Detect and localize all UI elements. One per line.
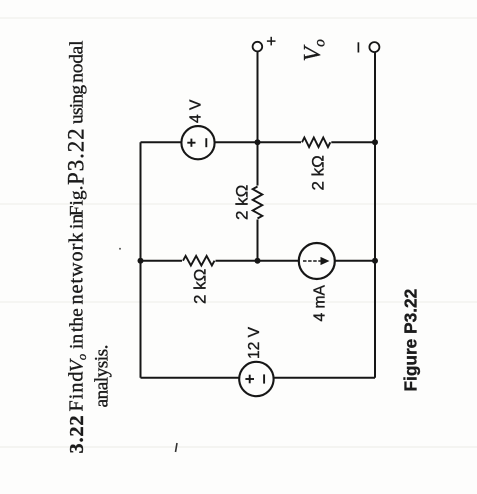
svg-text:3.22: 3.22	[66, 415, 88, 454]
svg-text:Vo in: Vo in	[67, 334, 89, 372]
svg-text:2 kΩ: 2 kΩ	[191, 269, 210, 304]
terminal: Vo plus terminal (open circle)	[253, 42, 263, 52]
wire: left vertical branch	[140, 142, 142, 377]
node dot: junction center	[255, 258, 261, 264]
svg-text:nodal: nodal	[67, 41, 88, 83]
svg-text:Find: Find	[66, 370, 88, 411]
minus sign at Vo minus terminal (rotated dash)	[357, 42, 359, 52]
wire: top horizontal branch	[141, 141, 376, 143]
wire: middle vertical branch (to plus terminal)	[257, 51, 259, 260]
node dot: junction left-middle	[138, 258, 144, 264]
node dot: junction top-middle	[255, 139, 261, 145]
wire: middle horizontal branch	[141, 260, 376, 262]
svg-text:2 kΩ: 2 kΩ	[233, 185, 252, 220]
svg-text:4 V: 4 V	[187, 99, 204, 123]
plus sign at Vo plus terminal	[267, 37, 276, 46]
svg-text:Fig.: Fig.	[67, 186, 88, 217]
resistor R2 2 kOhm (middle left, horizontal zigzag)	[182, 254, 216, 267]
problem statement line 1 (rotated): 3.22 Find Vo in the network in Fig. P3.22 using nodal	[64, 41, 89, 454]
wire: right vertical branch (to minus terminal)	[374, 52, 376, 378]
svg-text:network: network	[66, 232, 88, 305]
node dot: junction top-right	[372, 139, 378, 145]
terminal: Vo minus terminal (open circle)	[369, 42, 379, 52]
svg-text:4 mA: 4 mA	[311, 285, 328, 322]
svg-text:analysis.: analysis.	[92, 345, 113, 407]
current source I1 4 mA (circle with arrow)	[299, 243, 335, 279]
svg-text:12 V: 12 V	[246, 326, 263, 359]
node dot: junction right-middle	[372, 258, 378, 264]
svg-text:using: using	[67, 85, 88, 124]
svg-text:Figure P3.22: Figure P3.22	[401, 289, 421, 392]
resistor R1 2 kOhm (top right, horizontal zigzag)	[301, 136, 331, 149]
svg-text:the: the	[67, 308, 88, 332]
wire: bottom horizontal branch	[141, 377, 376, 379]
resistor R3 2 kOhm (middle vertical zigzag)	[251, 186, 264, 220]
voltage source V1 4 V (circle with plus and minus)	[181, 126, 214, 159]
svg-text:2 kΩ: 2 kΩ	[309, 155, 328, 190]
svg-text:P3.22: P3.22	[64, 127, 89, 185]
voltage source V2 12 V (circle with plus and minus)	[239, 362, 273, 396]
